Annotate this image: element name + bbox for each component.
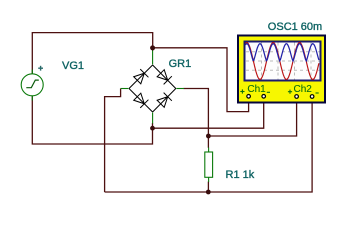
Ch2 minus mark — [316, 92, 319, 94]
svg-text:Ch2: Ch2 — [294, 84, 313, 95]
wire bottom net to scope Ch2- terminal — [105, 98, 313, 193]
oscilloscope OSC1 body — [238, 36, 325, 103]
wire VG1 bottom to node B — [32, 96, 152, 144]
diode D2 (top-right edge, pointing to right vertex) — [157, 69, 172, 84]
oscilloscope screen frame — [245, 42, 321, 81]
diode D3 (left-bottom edge, pointing to bottom vertex) — [133, 93, 148, 108]
wire VG1 top loop to node A — [32, 33, 152, 74]
Ch1 minus mark — [267, 91, 270, 93]
wire bridge bottom stub dark part — [152, 123, 154, 128]
scope terminal Ch2- — [310, 95, 314, 99]
svg-text:GR1: GR1 — [169, 58, 192, 70]
wire node B to scope Ch1- terminal — [153, 98, 264, 129]
voltage generator VG1 — [21, 70, 43, 101]
bridge rectifier GR1 green terminal stubs — [121, 51, 184, 124]
node B junction dot — [150, 126, 155, 131]
node A junction dot — [150, 45, 155, 50]
oscilloscope blue waveform (Ch2 rectified) — [245, 44, 319, 61]
Ch2 plus mark — [288, 90, 292, 94]
resistor R1 body — [205, 152, 213, 177]
VG1 plus polarity mark — [38, 66, 43, 71]
svg-text:OSC1 60m: OSC1 60m — [268, 21, 322, 33]
scope terminal Ch2+ — [295, 95, 299, 99]
svg-text:R1 1k: R1 1k — [226, 169, 255, 181]
svg-text:VG1: VG1 — [62, 60, 84, 72]
Ch1 plus mark — [240, 89, 244, 93]
node D junction dot (R1 bottom) — [206, 190, 211, 195]
wire bridge right to node C / R1 top — [184, 89, 209, 148]
node C junction dot — [206, 134, 211, 139]
wire R1 bottom to bottom net — [207, 182, 209, 193]
scope terminal Ch1- — [262, 95, 266, 99]
resistor R1 green stubs — [208, 148, 210, 183]
wire bridge top stub dark part — [152, 48, 154, 51]
scope terminal Ch1+ — [247, 95, 251, 99]
diode D4 (bottom-right edge, pointing to right vertex) — [157, 93, 172, 108]
wire bridge left down to bottom net — [105, 89, 121, 193]
svg-text:Ch1: Ch1 — [247, 84, 266, 95]
diode D1 (left-top edge, pointing to top vertex) — [133, 69, 148, 84]
wire node A to scope Ch1+ terminal — [153, 48, 249, 112]
oscilloscope screen gridlines — [246, 43, 320, 80]
oscilloscope red waveform (Ch1 sine) — [245, 43, 319, 80]
wire node C to scope Ch2+ terminal — [208, 98, 296, 137]
bridge rectifier GR1 diamond edges — [129, 65, 176, 112]
